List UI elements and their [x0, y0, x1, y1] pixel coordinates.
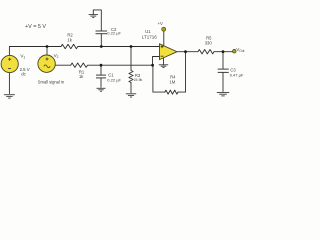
svg-text:+V = 5 V: +V = 5 V: [25, 24, 46, 30]
svg-text:LT1716: LT1716: [142, 35, 157, 40]
svg-text:0.22 µF: 0.22 µF: [107, 77, 121, 82]
svg-text:Small signal in: Small signal in: [38, 79, 65, 84]
svg-text:24.9k: 24.9k: [134, 78, 143, 82]
svg-text:330: 330: [205, 40, 213, 45]
svg-text:1M: 1M: [169, 80, 175, 85]
svg-text:U1: U1: [145, 29, 151, 34]
svg-text:0.47 µF: 0.47 µF: [230, 72, 244, 77]
svg-text:+V: +V: [158, 21, 163, 26]
svg-text:0.22 µF: 0.22 µF: [107, 30, 121, 35]
